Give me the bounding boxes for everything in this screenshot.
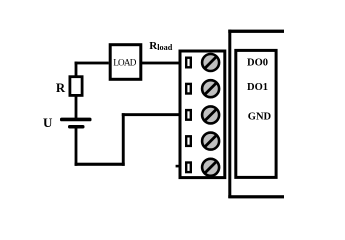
terminal opening 3 xyxy=(186,110,191,120)
svg-text:U: U xyxy=(43,115,53,130)
svg-text:DO0: DO0 xyxy=(247,57,268,68)
device outer box left edge xyxy=(228,30,231,198)
screw 3 xyxy=(202,106,219,123)
wire resistor bottom to battery xyxy=(75,96,78,119)
terminal block left tick xyxy=(176,165,179,168)
battery U long plate xyxy=(60,118,92,122)
device outer box top edge xyxy=(228,30,284,33)
battery U short plate xyxy=(68,125,85,129)
svg-text:LOAD: LOAD xyxy=(113,57,136,67)
terminal opening 1 xyxy=(186,58,191,68)
terminal opening 5 xyxy=(186,163,191,173)
screw 2 xyxy=(202,80,219,97)
wire middle horizontal to terminal block xyxy=(122,113,179,116)
wire bottom horizontal xyxy=(75,163,125,166)
terminal opening 2 xyxy=(186,84,191,94)
svg-text:DO1: DO1 xyxy=(247,82,268,93)
wire from load box right to terminal block xyxy=(142,62,179,65)
wire right vertical up xyxy=(122,113,125,166)
resistor R body xyxy=(70,77,82,96)
screw 1 xyxy=(202,54,219,71)
svg-text:R: R xyxy=(56,81,66,95)
terminal block body xyxy=(180,51,225,178)
load box U-load xyxy=(110,45,141,80)
svg-text:GND: GND xyxy=(248,111,272,122)
wire vertical corner down to resistor top xyxy=(75,62,78,77)
screw 5 xyxy=(202,159,219,176)
wire from load box left to corner above resistor xyxy=(75,62,109,65)
terminal opening 4 xyxy=(186,136,191,146)
device outer box bottom edge xyxy=(228,195,284,198)
wire battery bottom down xyxy=(75,128,78,166)
device inner terminal label box xyxy=(236,50,276,177)
screw 4 xyxy=(202,133,219,150)
